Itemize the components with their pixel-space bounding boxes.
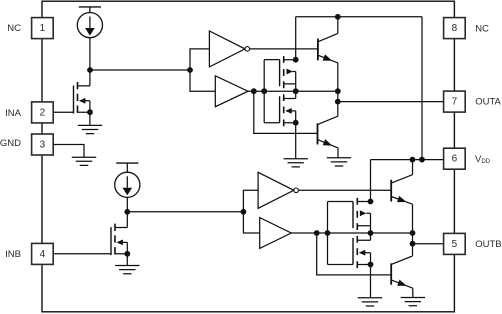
- svg-text:INB: INB: [5, 249, 21, 260]
- svg-text:8: 8: [452, 23, 458, 34]
- svg-text:7: 7: [452, 97, 458, 108]
- svg-text:OUTB: OUTB: [475, 239, 501, 250]
- svg-text:2: 2: [40, 107, 46, 118]
- svg-text:4: 4: [40, 249, 46, 260]
- svg-text:6: 6: [452, 154, 458, 165]
- svg-text:NC: NC: [475, 23, 489, 34]
- svg-text:OUTA: OUTA: [475, 97, 501, 108]
- svg-text:1: 1: [40, 23, 46, 34]
- svg-text:5: 5: [452, 239, 458, 250]
- svg-text:NC: NC: [7, 23, 21, 34]
- svg-text:3: 3: [40, 139, 46, 150]
- svg-text:INA: INA: [5, 108, 22, 119]
- svg-text:GND: GND: [0, 138, 21, 149]
